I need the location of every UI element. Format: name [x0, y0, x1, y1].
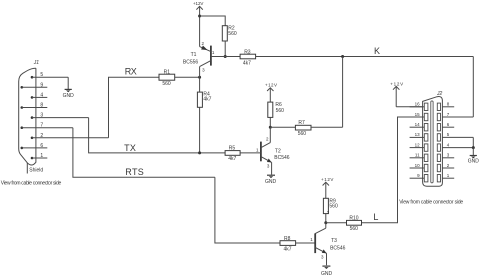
resistor R1 [159, 69, 175, 87]
J1 pin 3 [31, 113, 89, 119]
wire R5 to T2 base [240, 152, 261, 154]
transistor T3 BC546 [310, 210, 345, 265]
supply +12V (bottom) [321, 177, 334, 198]
wire +12V to J2 pin16 [396, 106, 422, 108]
svg-text:15: 15 [415, 112, 421, 117]
supply +12V (J2) [390, 82, 403, 107]
transistor T1 BC556 [183, 41, 240, 77]
J2 pin 4 [437, 142, 473, 151]
J2 pin 14 [410, 122, 428, 131]
wire K to J2 pin7 [472, 57, 474, 118]
svg-text:4k7: 4k7 [203, 97, 211, 103]
svg-text:2: 2 [40, 133, 43, 139]
J1 shield pin [27, 163, 43, 174]
J2 pin 16 [410, 102, 428, 111]
svg-text:R3: R3 [244, 50, 251, 56]
node junction R4/TX [198, 151, 201, 154]
ground GND (J1 pin5) [63, 89, 75, 99]
svg-text:K: K [374, 46, 380, 56]
J2 pin 12 [410, 142, 428, 151]
J1 pin 8 [21, 103, 48, 109]
resistor R9 [323, 198, 338, 213]
svg-text:RX: RX [125, 67, 137, 77]
J1 pin 5 [31, 72, 68, 78]
svg-text:6: 6 [40, 143, 43, 149]
svg-text:10: 10 [415, 163, 421, 168]
wire RTS down and right [215, 177, 280, 243]
node junction RX/R4/T1 [198, 76, 201, 79]
supply +12V (top) [193, 1, 204, 47]
J1 pin 4 [31, 92, 48, 98]
svg-text:14: 14 [415, 122, 421, 127]
svg-text:560: 560 [350, 226, 359, 232]
J2 pin 1 [437, 173, 454, 182]
J2 pin 13 [410, 132, 428, 141]
J1 pin 2 [31, 133, 109, 139]
svg-text:R10: R10 [349, 216, 358, 222]
node junction K/R7 branch [341, 55, 344, 58]
J2 pin 6 [437, 122, 454, 131]
svg-text:R1: R1 [164, 69, 171, 75]
J1 pin 7 [21, 123, 73, 129]
svg-text:4k7: 4k7 [283, 246, 291, 252]
svg-text:+12V: +12V [390, 82, 403, 87]
wire junction to R7 [270, 126, 295, 128]
svg-text:7: 7 [40, 123, 43, 129]
svg-text:GND: GND [265, 179, 277, 185]
wire J2 pin5/pin4 to GND [472, 137, 474, 147]
svg-text:8: 8 [40, 103, 43, 109]
wire pin7 to RTS [73, 128, 215, 178]
svg-text:+12V: +12V [193, 1, 204, 6]
svg-text:+12V: +12V [265, 82, 277, 87]
svg-text:GND: GND [321, 271, 333, 277]
svg-text:13: 13 [415, 132, 421, 137]
J1 pin 1 [31, 153, 48, 159]
svg-text:R8: R8 [284, 236, 291, 242]
svg-text:4k7: 4k7 [228, 156, 236, 162]
svg-text:GND: GND [63, 93, 75, 99]
wire to R2 [200, 16, 226, 26]
svg-text:5: 5 [40, 72, 43, 78]
supply +12V (middle) [265, 82, 277, 102]
J2 pin 7 [437, 112, 473, 121]
J1 pin 6 [21, 143, 48, 149]
wire K branch down to R7 [342, 57, 344, 128]
resistor R3 [240, 50, 256, 67]
node top junction [198, 15, 201, 18]
svg-text:560: 560 [276, 108, 285, 114]
resistor R5 [225, 145, 240, 162]
ground GND (J2) [468, 148, 480, 165]
svg-text:T3: T3 [331, 238, 337, 244]
svg-text:R7: R7 [298, 120, 305, 126]
resistor R2 [222, 26, 237, 42]
wire R6 to junction [269, 117, 271, 127]
wire pin3 to TX [89, 118, 226, 153]
node R2/base junction [224, 55, 227, 58]
J2 pin 2 [437, 163, 454, 172]
svg-text:RTS: RTS [125, 167, 144, 177]
svg-text:View from cable connector side: View from cable connector side [1, 181, 62, 187]
resistor R8 [280, 236, 296, 253]
transistor T2 BC546 [256, 127, 290, 174]
ground GND (T2) [265, 175, 277, 185]
connector J2 body [423, 97, 443, 187]
connector J1 body [19, 68, 36, 165]
wire R8 to T3 base [296, 242, 316, 244]
J2 pin 3 [437, 153, 454, 162]
resistor R10 [347, 216, 362, 232]
node junction pin4 GND [472, 146, 475, 149]
svg-text:11: 11 [415, 153, 420, 158]
svg-text:560: 560 [162, 81, 171, 87]
svg-text:+12V: +12V [321, 177, 334, 182]
svg-text:560: 560 [329, 203, 338, 209]
wire R7 to K branch [311, 126, 343, 128]
wire R4 leads [199, 77, 201, 92]
svg-text:16: 16 [415, 102, 421, 107]
svg-text:BC546: BC546 [330, 246, 346, 252]
wire R1 to node [175, 76, 200, 78]
wire K line [256, 56, 474, 58]
node junction R9/R10/T3 [324, 221, 327, 224]
svg-text:BC556: BC556 [183, 60, 199, 66]
svg-text:J1: J1 [33, 60, 40, 66]
J2 pin 15 [410, 112, 428, 121]
svg-text:R5: R5 [229, 145, 236, 151]
svg-text:T2: T2 [275, 149, 281, 155]
svg-text:BC546: BC546 [274, 155, 290, 161]
J2 pin 10 [410, 163, 428, 172]
J2 pin 5 [437, 132, 473, 141]
svg-text:L: L [373, 212, 378, 222]
wire R2 to base line [224, 41, 226, 57]
wire R10 to J2 pin15 (L net) [362, 117, 423, 223]
J2 pin 8 [437, 102, 454, 111]
svg-text:4k7: 4k7 [243, 60, 251, 66]
node junction R6/R7/T2 [269, 126, 272, 129]
svg-text:1: 1 [40, 153, 43, 159]
svg-text:4: 4 [40, 92, 43, 98]
svg-text:T1: T1 [191, 52, 197, 58]
J2 pin 9 [410, 173, 428, 182]
J2 pin 11 [410, 153, 428, 162]
wire R9 to junction [325, 214, 327, 223]
svg-text:560: 560 [228, 31, 237, 37]
svg-text:View from cable connector side: View from cable connector side [399, 199, 463, 205]
ground GND (T3) [321, 266, 333, 277]
svg-text:12: 12 [415, 142, 421, 147]
svg-text:TX: TX [124, 143, 136, 153]
wire pin5 to GND [67, 77, 69, 89]
svg-text:9: 9 [40, 82, 43, 88]
wire pin2 to RX [109, 77, 160, 138]
J1 pin 9 [21, 82, 48, 88]
wire junction to R10 [326, 222, 347, 224]
resistor R7 [295, 120, 311, 137]
svg-text:GND: GND [468, 158, 480, 164]
svg-text:3: 3 [40, 113, 43, 119]
svg-text:560: 560 [298, 131, 307, 137]
svg-text:J2: J2 [436, 91, 443, 97]
svg-text:Shield: Shield [29, 167, 43, 173]
resistor R4 [197, 92, 211, 108]
resistor R6 [268, 102, 284, 117]
